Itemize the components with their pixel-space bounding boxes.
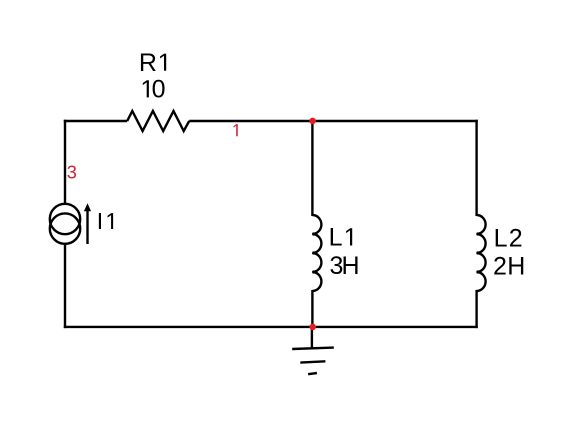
wire left lower [64,243,66,328]
wire top right segment [189,120,478,122]
wire right upper [475,120,477,216]
wire bottom [64,326,478,328]
svg-text:3: 3 [67,163,77,183]
ground stub [311,327,313,349]
svg-text:L: L [329,224,343,252]
wire left upper [64,120,66,205]
wire middle upper [311,121,313,216]
svg-text:H: H [342,252,360,280]
value 3H [330,252,360,280]
svg-text:2: 2 [509,224,523,252]
wire middle lower [311,290,313,327]
svg-text:L: L [494,224,508,252]
svg-text:I: I [97,208,103,234]
label R1 [139,49,166,77]
current source I1 circle upper [50,204,80,234]
ground bar 3 [308,373,317,374]
current source arrow [86,210,88,245]
ground junction dot [309,324,316,331]
svg-text:R: R [139,49,157,77]
ground bar 1 [292,348,334,349]
ground bar 2 [300,361,325,362]
wire right lower [475,290,477,328]
svg-text:0: 0 [152,75,166,103]
value 10 [143,75,166,103]
label I1 [97,208,113,234]
inductor L2 [477,215,486,291]
resistor R1 [127,111,189,131]
svg-text:2: 2 [493,252,507,280]
node label 1 [233,124,237,136]
label L2 [494,224,523,252]
svg-text:H: H [507,252,525,280]
inductor L1 [312,215,321,291]
current source I1 circle lower [50,213,80,243]
value 2H [493,252,525,280]
node 1 junction dot [309,118,316,125]
wire top left segment [64,120,127,122]
label L1 [329,224,353,252]
